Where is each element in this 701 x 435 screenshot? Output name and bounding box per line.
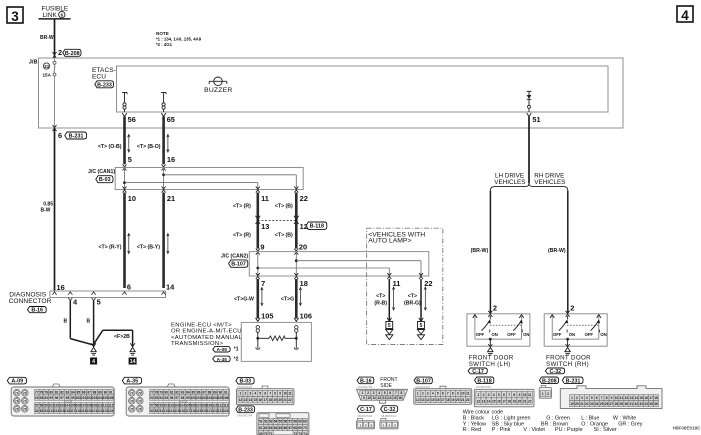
- svg-text:12: 12: [625, 396, 629, 400]
- svg-text:B: B: [87, 319, 91, 325]
- svg-text:2: 2: [422, 392, 424, 396]
- svg-text:9: 9: [519, 393, 521, 397]
- svg-text:LINK: LINK: [43, 12, 58, 19]
- svg-text:7: 7: [508, 393, 510, 397]
- svg-text:<T>G-W: <T>G-W: [234, 296, 254, 302]
- svg-text:14: 14: [426, 398, 430, 402]
- svg-text:59: 59: [298, 420, 302, 424]
- svg-text:<T> (B): <T> (B): [275, 204, 293, 210]
- svg-text:74: 74: [138, 399, 142, 403]
- svg-text:11: 11: [620, 396, 624, 400]
- svg-text:5: 5: [97, 298, 101, 307]
- svg-text:MU802782: MU802782: [358, 385, 373, 389]
- svg-text:B-16: B-16: [360, 378, 372, 384]
- svg-text:1: 1: [542, 392, 544, 396]
- svg-text:82: 82: [175, 390, 179, 394]
- svg-text:27: 27: [610, 402, 614, 406]
- svg-text:57: 57: [288, 420, 292, 424]
- svg-text:12: 12: [378, 396, 382, 400]
- svg-text:14: 14: [130, 359, 136, 365]
- svg-text:56: 56: [284, 420, 288, 424]
- svg-text:73: 73: [15, 399, 19, 403]
- svg-text:18: 18: [654, 396, 658, 400]
- svg-text:11: 11: [528, 393, 532, 397]
- svg-text:26: 26: [605, 402, 609, 406]
- svg-text:*2 : 4G1: *2 : 4G1: [156, 42, 173, 47]
- svg-text:10: 10: [128, 194, 136, 203]
- svg-text:6: 6: [503, 393, 505, 397]
- svg-text:97: 97: [60, 396, 64, 400]
- svg-text:3: 3: [581, 396, 583, 400]
- svg-text:22: 22: [528, 399, 532, 403]
- svg-text:7: 7: [261, 279, 265, 288]
- svg-text:17: 17: [263, 398, 267, 402]
- svg-text:21: 21: [167, 194, 175, 203]
- svg-text:B-118: B-118: [310, 224, 324, 230]
- svg-text:75: 75: [15, 407, 19, 411]
- svg-text:82: 82: [150, 409, 154, 413]
- svg-text:17: 17: [649, 396, 653, 400]
- svg-text:85: 85: [192, 390, 196, 394]
- svg-text:88: 88: [208, 390, 212, 394]
- svg-text:OR ENGINE-A-M/T-ECU: OR ENGINE-A-M/T-ECU: [171, 329, 242, 335]
- svg-text:B-16: B-16: [31, 308, 43, 314]
- svg-text:12: 12: [416, 398, 420, 402]
- svg-text:20: 20: [278, 398, 282, 402]
- svg-text:<T> (R): <T> (R): [233, 232, 251, 238]
- svg-text:22: 22: [288, 398, 292, 402]
- svg-text:83: 83: [155, 409, 159, 413]
- svg-text:*1 : 134, 1A0, 135, 4A9: *1 : 134, 1A0, 135, 4A9: [156, 36, 202, 41]
- svg-text:SIDE: SIDE: [380, 383, 392, 389]
- svg-text:13: 13: [244, 398, 248, 402]
- svg-text:4: 4: [493, 393, 495, 397]
- svg-text:58: 58: [155, 404, 159, 408]
- svg-text:V : Violet: V : Violet: [523, 427, 545, 433]
- svg-text:84: 84: [44, 409, 48, 413]
- svg-text:GR : Grey: GR : Grey: [618, 421, 643, 427]
- svg-text:20: 20: [299, 243, 307, 252]
- svg-text:35: 35: [649, 402, 653, 406]
- svg-text:106: 106: [223, 396, 229, 400]
- svg-text:B: B: [64, 319, 68, 325]
- svg-text:99: 99: [71, 396, 75, 400]
- svg-text:OFF: OFF: [476, 332, 485, 337]
- svg-text:19: 19: [570, 402, 574, 406]
- svg-text:1: 1: [359, 424, 361, 428]
- svg-text:18: 18: [507, 399, 511, 403]
- svg-text:77: 77: [150, 390, 154, 394]
- svg-text:94: 94: [44, 396, 48, 400]
- svg-text:15: 15: [254, 398, 258, 402]
- svg-text:32: 32: [634, 402, 638, 406]
- svg-text:98: 98: [66, 396, 70, 400]
- svg-text:11: 11: [373, 396, 377, 400]
- svg-text:31: 31: [630, 402, 634, 406]
- svg-text:13: 13: [421, 398, 425, 402]
- svg-text:MU801534: MU801534: [358, 414, 373, 418]
- svg-text:OFF: OFF: [585, 332, 594, 337]
- svg-text:124: 124: [108, 409, 114, 413]
- svg-text:13: 13: [261, 222, 269, 231]
- svg-text:105: 105: [261, 312, 273, 321]
- svg-text:86: 86: [197, 390, 201, 394]
- svg-text:6: 6: [58, 131, 62, 140]
- svg-text:95: 95: [164, 396, 168, 400]
- svg-text:85: 85: [77, 390, 81, 394]
- svg-text:106: 106: [108, 396, 114, 400]
- svg-text:33: 33: [639, 402, 643, 406]
- svg-text:57: 57: [35, 404, 39, 408]
- svg-text:2: 2: [493, 303, 497, 312]
- svg-text:99: 99: [186, 396, 190, 400]
- svg-text:MU801515: MU801515: [476, 385, 491, 389]
- svg-text:R : Red: R : Red: [463, 427, 481, 433]
- svg-text:23: 23: [590, 402, 594, 406]
- svg-text:89: 89: [213, 390, 217, 394]
- svg-text:1: 1: [383, 424, 385, 428]
- svg-text:3: 3: [488, 393, 490, 397]
- svg-text:84: 84: [186, 390, 190, 394]
- svg-text:92: 92: [35, 396, 39, 400]
- svg-text:7: 7: [395, 391, 397, 395]
- svg-text:1: 1: [417, 392, 419, 396]
- svg-text:15A: 15A: [43, 73, 52, 78]
- svg-text:<T> (B): <T> (B): [275, 232, 293, 238]
- svg-text:<T>: <T>: [376, 294, 385, 300]
- svg-text:80: 80: [164, 390, 168, 394]
- svg-text:82: 82: [35, 409, 39, 413]
- svg-text:(BR-W): (BR-W): [471, 248, 489, 254]
- svg-text:B-208: B-208: [542, 378, 557, 384]
- svg-text:2: 2: [576, 396, 578, 400]
- svg-text:87: 87: [87, 390, 91, 394]
- svg-text:11: 11: [466, 392, 470, 396]
- svg-text:19: 19: [273, 398, 277, 402]
- svg-text:96: 96: [170, 396, 174, 400]
- svg-text:16: 16: [644, 396, 648, 400]
- svg-text:<T>G: <T>G: [281, 296, 294, 302]
- svg-text:<T>: <T>: [408, 294, 417, 300]
- svg-text:14: 14: [487, 399, 491, 403]
- svg-text:SWITCH (RH): SWITCH (RH): [546, 361, 589, 368]
- svg-text:H8F08E018C: H8F08E018C: [673, 425, 701, 430]
- svg-text:16: 16: [167, 155, 175, 164]
- svg-text:3: 3: [394, 424, 396, 428]
- svg-text:ON: ON: [600, 332, 606, 337]
- svg-text:5: 5: [128, 155, 132, 164]
- svg-text:55: 55: [279, 420, 283, 424]
- svg-text:12: 12: [239, 398, 243, 402]
- svg-text:94: 94: [159, 396, 163, 400]
- svg-text:72: 72: [23, 391, 27, 395]
- svg-text:(BR-W): (BR-W): [548, 248, 566, 254]
- svg-text:2: 2: [388, 424, 390, 428]
- svg-text:11: 11: [261, 194, 269, 203]
- svg-text:53: 53: [269, 420, 273, 424]
- svg-text:2: 2: [58, 48, 62, 57]
- svg-text:3: 3: [249, 392, 251, 396]
- svg-text:13: 13: [482, 399, 486, 403]
- svg-text:33: 33: [44, 64, 49, 69]
- svg-text:25: 25: [600, 402, 604, 406]
- svg-text:J/C (CAN1): J/C (CAN1): [88, 169, 115, 175]
- svg-text:3: 3: [427, 392, 429, 396]
- svg-text:83: 83: [66, 390, 70, 394]
- svg-text:29: 29: [620, 402, 624, 406]
- svg-text:A-09: A-09: [11, 379, 23, 385]
- svg-text:92: 92: [150, 396, 154, 400]
- svg-text:B-233: B-233: [97, 82, 112, 88]
- svg-text:21: 21: [580, 402, 584, 406]
- svg-text:8: 8: [401, 391, 403, 395]
- svg-text:<T> (B-Y): <T> (B-Y): [137, 245, 160, 251]
- svg-text:C-17: C-17: [472, 369, 484, 375]
- svg-text:SI : Silver: SI : Silver: [594, 427, 617, 433]
- svg-text:A-35: A-35: [126, 379, 138, 385]
- svg-text:19: 19: [451, 398, 455, 402]
- svg-text:4: 4: [586, 396, 588, 400]
- svg-text:93: 93: [155, 396, 159, 400]
- svg-text:89: 89: [98, 390, 102, 394]
- svg-text:10: 10: [367, 396, 371, 400]
- svg-text:22: 22: [300, 194, 308, 203]
- svg-text:34: 34: [644, 402, 648, 406]
- svg-text:9: 9: [363, 396, 365, 400]
- svg-text:ENGINE-ECU <M/T>: ENGINE-ECU <M/T>: [171, 322, 232, 328]
- svg-text:67: 67: [288, 426, 292, 430]
- svg-text:14: 14: [634, 396, 638, 400]
- svg-text:71: 71: [15, 391, 19, 395]
- svg-text:CONNECTOR: CONNECTOR: [9, 298, 52, 305]
- svg-text:*2: *2: [234, 356, 239, 362]
- svg-text:<T> (O-B): <T> (O-B): [98, 144, 122, 150]
- svg-text:2: 2: [547, 392, 549, 396]
- svg-text:10: 10: [615, 396, 619, 400]
- svg-text:1: 1: [362, 391, 364, 395]
- svg-text:77: 77: [35, 390, 39, 394]
- svg-text:79: 79: [44, 390, 48, 394]
- svg-text:5: 5: [498, 393, 500, 397]
- svg-text:91: 91: [224, 390, 228, 394]
- svg-text:C-32: C-32: [384, 407, 396, 413]
- svg-text:10: 10: [283, 392, 287, 396]
- svg-text:6: 6: [61, 13, 64, 18]
- svg-text:61: 61: [259, 426, 263, 430]
- svg-text:75: 75: [130, 407, 134, 411]
- svg-text:4: 4: [92, 359, 95, 365]
- svg-text:83: 83: [40, 409, 44, 413]
- svg-text:B-231: B-231: [69, 134, 84, 140]
- svg-text:18: 18: [446, 398, 450, 402]
- svg-text:76: 76: [138, 407, 142, 411]
- svg-text:112: 112: [108, 404, 113, 408]
- svg-text:28: 28: [615, 402, 619, 406]
- svg-text:14: 14: [166, 282, 175, 291]
- svg-text:5: 5: [388, 323, 391, 329]
- svg-text:13: 13: [383, 396, 387, 400]
- svg-text:65: 65: [279, 426, 283, 430]
- svg-text:78: 78: [155, 390, 159, 394]
- svg-text:2: 2: [365, 424, 367, 428]
- svg-text:16: 16: [436, 398, 440, 402]
- svg-text:3: 3: [11, 9, 19, 24]
- svg-text:14: 14: [249, 398, 253, 402]
- svg-text:78: 78: [40, 390, 44, 394]
- svg-text:2: 2: [483, 393, 485, 397]
- svg-text:10: 10: [523, 393, 527, 397]
- svg-text:MU800784: MU800784: [238, 414, 253, 418]
- svg-text:93: 93: [40, 396, 44, 400]
- svg-text:19: 19: [513, 399, 517, 403]
- svg-text:51: 51: [532, 115, 540, 124]
- svg-text:15: 15: [492, 399, 496, 403]
- svg-text:<T> (R-Y): <T> (R-Y): [98, 245, 121, 251]
- svg-text:1: 1: [477, 393, 479, 397]
- svg-text:3: 3: [373, 391, 375, 395]
- svg-text:4: 4: [432, 392, 434, 396]
- svg-text:VEHICLES: VEHICLES: [534, 179, 565, 186]
- svg-text:6: 6: [127, 282, 131, 291]
- svg-text:B-107: B-107: [416, 378, 431, 384]
- svg-text:<AUTOMATED MANUAL: <AUTOMATED MANUAL: [171, 335, 243, 341]
- svg-text:*1: *1: [234, 347, 239, 353]
- svg-text:4: 4: [378, 391, 380, 395]
- svg-text:17: 17: [441, 398, 445, 402]
- svg-text:<F>2B: <F>2B: [114, 334, 130, 340]
- svg-text:A-35: A-35: [217, 357, 228, 362]
- svg-text:95: 95: [49, 396, 53, 400]
- svg-text:15: 15: [393, 396, 397, 400]
- svg-text:81: 81: [55, 390, 59, 394]
- svg-text:P : Pink: P : Pink: [492, 427, 511, 433]
- svg-text:B-W: B-W: [41, 208, 51, 214]
- svg-text:24: 24: [595, 402, 599, 406]
- svg-text:16: 16: [497, 399, 501, 403]
- svg-text:66: 66: [284, 426, 288, 430]
- svg-text:18: 18: [268, 398, 272, 402]
- svg-text:FRONT: FRONT: [380, 377, 397, 383]
- svg-text:2: 2: [245, 392, 247, 396]
- svg-text:OFF: OFF: [553, 332, 562, 337]
- svg-text:6: 6: [442, 392, 444, 396]
- svg-text:74: 74: [23, 399, 27, 403]
- svg-text:7: 7: [601, 396, 603, 400]
- svg-text:12: 12: [477, 399, 481, 403]
- svg-text:88: 88: [93, 390, 97, 394]
- svg-text:20: 20: [575, 402, 579, 406]
- svg-text:60: 60: [303, 420, 307, 424]
- svg-text:3: 3: [371, 424, 373, 428]
- svg-text:54: 54: [274, 420, 278, 424]
- svg-text:87: 87: [202, 390, 206, 394]
- svg-text:AUTO LAMP>: AUTO LAMP>: [368, 237, 411, 244]
- svg-text:97: 97: [175, 396, 179, 400]
- svg-text:21: 21: [523, 399, 527, 403]
- svg-text:21: 21: [461, 398, 465, 402]
- svg-text:C-17: C-17: [360, 407, 372, 413]
- svg-text:B-208: B-208: [65, 51, 80, 57]
- svg-text:1: 1: [571, 396, 573, 400]
- svg-text:<T> (B-O): <T> (B-O): [137, 144, 161, 150]
- svg-text:73: 73: [130, 399, 134, 403]
- svg-text:6: 6: [596, 396, 598, 400]
- svg-text:68: 68: [293, 426, 297, 430]
- svg-text:84: 84: [71, 390, 75, 394]
- svg-text:9: 9: [457, 392, 459, 396]
- svg-text:J/B: J/B: [29, 60, 38, 66]
- svg-text:56: 56: [128, 115, 136, 124]
- svg-text:17: 17: [502, 399, 506, 403]
- svg-text:106: 106: [300, 312, 312, 321]
- svg-text:90: 90: [219, 390, 223, 394]
- svg-text:65: 65: [167, 115, 175, 124]
- svg-text:OFF: OFF: [507, 332, 516, 337]
- svg-text:70: 70: [303, 426, 307, 430]
- svg-text:B-03: B-03: [240, 379, 252, 385]
- svg-text:8: 8: [274, 392, 276, 396]
- svg-text:79: 79: [159, 390, 163, 394]
- svg-text:4: 4: [254, 392, 256, 396]
- svg-text:63: 63: [269, 426, 273, 430]
- svg-text:(BR-G): (BR-G): [404, 301, 421, 307]
- svg-text:22: 22: [585, 402, 589, 406]
- svg-text:1: 1: [240, 392, 242, 396]
- svg-text:7: 7: [269, 392, 271, 396]
- svg-text:20: 20: [456, 398, 460, 402]
- svg-text:22: 22: [466, 398, 470, 402]
- svg-text:72: 72: [138, 391, 142, 395]
- svg-text:84: 84: [159, 409, 163, 413]
- svg-text:22: 22: [424, 279, 432, 288]
- svg-text:71: 71: [130, 391, 134, 395]
- svg-text:8: 8: [513, 393, 515, 397]
- svg-text:(R-B): (R-B): [374, 301, 387, 307]
- svg-text:B-233: B-233: [238, 407, 253, 413]
- svg-text:SWITCH (LH): SWITCH (LH): [469, 361, 511, 368]
- svg-text:76: 76: [23, 407, 27, 411]
- svg-text:5: 5: [591, 396, 593, 400]
- svg-text:PU : Purple: PU : Purple: [555, 427, 583, 433]
- svg-text:B-107: B-107: [231, 262, 246, 268]
- svg-text:90: 90: [104, 390, 108, 394]
- svg-text:16: 16: [398, 396, 402, 400]
- svg-text:5: 5: [437, 392, 439, 396]
- svg-text:124: 124: [223, 409, 229, 413]
- svg-text:2: 2: [367, 391, 369, 395]
- svg-text:BUZZER: BUZZER: [204, 87, 232, 94]
- svg-text:21: 21: [283, 398, 287, 402]
- svg-text:ON: ON: [523, 332, 529, 337]
- svg-text:B-231: B-231: [566, 378, 581, 384]
- svg-text:MU801534: MU801534: [381, 414, 396, 418]
- svg-text:82: 82: [60, 390, 64, 394]
- svg-text:5: 5: [420, 323, 423, 329]
- svg-text:64: 64: [274, 426, 278, 430]
- svg-text:30: 30: [625, 402, 629, 406]
- svg-text:20: 20: [518, 399, 522, 403]
- svg-text:57: 57: [150, 404, 154, 408]
- svg-text:58: 58: [40, 404, 44, 408]
- svg-text:<T> (R): <T> (R): [233, 204, 251, 210]
- svg-text:2: 2: [570, 303, 574, 312]
- svg-text:6: 6: [264, 392, 266, 396]
- svg-text:11: 11: [288, 392, 292, 396]
- svg-text:C-32: C-32: [550, 369, 562, 375]
- svg-text:ON: ON: [492, 332, 498, 337]
- svg-text:ON: ON: [569, 332, 575, 337]
- svg-text:83: 83: [181, 390, 185, 394]
